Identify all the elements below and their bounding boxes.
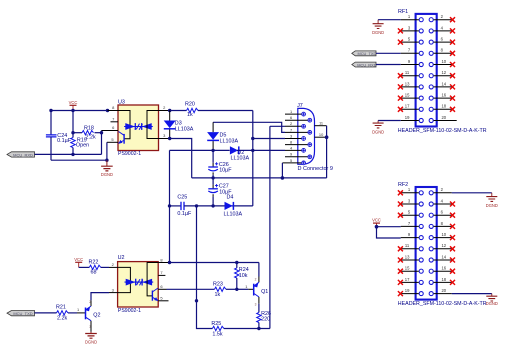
no-connect X pin 18	[450, 280, 455, 285]
wire C24 bottom to DGND	[51, 159, 107, 161]
diode D5 LL103A	[207, 122, 238, 150]
header RF1 pin 7 stub	[401, 52, 419, 54]
J7 pin 9 stub	[285, 156, 308, 158]
node junction VCC stem	[71, 109, 74, 112]
svg-text:12: 12	[441, 243, 446, 248]
no-connect X pin 17	[398, 107, 403, 112]
node junction D2 right on R20 net	[251, 149, 254, 152]
node junction C26/C27 midpoint	[211, 176, 214, 179]
node junction R18 left	[71, 131, 74, 134]
opto-coupler U2 PS9002-1 body	[118, 255, 159, 314]
svg-text:3: 3	[255, 303, 257, 307]
no-connect X pin 2	[450, 17, 455, 22]
no-connect X pin 8	[450, 224, 455, 229]
header RF1 pin 4 stub	[434, 30, 452, 32]
U2 right pin labels	[160, 257, 163, 300]
no-connect X pin 8	[450, 51, 455, 56]
svg-text:1k: 1k	[215, 292, 221, 298]
no-connect X pin 5	[398, 40, 403, 45]
wire VCC to RF2 pin 7	[377, 226, 401, 228]
svg-text:220: 220	[261, 317, 270, 323]
J7 pin 2 stub	[285, 125, 302, 127]
svg-text:7: 7	[290, 127, 292, 132]
no-connect X pin 12	[450, 73, 455, 78]
header RF2 pin 10 stub	[434, 237, 452, 239]
svg-text:10µF: 10µF	[219, 168, 232, 174]
header RF1 pin 20 stub	[434, 120, 457, 122]
no-connect X pin 4	[450, 28, 455, 33]
svg-text:11: 11	[319, 121, 323, 126]
node junction R18 right / pin6	[100, 131, 103, 134]
header RF1 pin 10 stub	[434, 64, 452, 66]
wire DGND to RF1 pin 1	[378, 19, 401, 21]
svg-text:12: 12	[441, 70, 446, 75]
header RF2 pin 2 stub	[434, 192, 452, 194]
wire MCU_TXD to R21	[35, 312, 57, 314]
diode D2 LL103A	[213, 146, 285, 161]
no-connect X pin 13	[398, 258, 403, 263]
svg-text:Q2: Q2	[93, 313, 100, 319]
J7 pin 10 stub	[315, 136, 327, 138]
no-connect X pin 17	[398, 280, 403, 285]
U3 pin number labels 8 7 6 5	[111, 105, 115, 142]
svg-text:DGND: DGND	[101, 172, 113, 177]
svg-text:9: 9	[290, 152, 292, 157]
svg-text:19: 19	[405, 115, 410, 120]
resistor R22 68	[79, 259, 109, 275]
svg-text:6: 6	[290, 115, 292, 120]
J7 pin 7 stub	[285, 131, 308, 133]
svg-text:18: 18	[441, 277, 446, 282]
svg-text:U2: U2	[118, 255, 125, 261]
header RF1 pin 16 stub	[434, 97, 452, 99]
U3 pin 5 stub	[107, 141, 118, 143]
no-connect X pin 15	[398, 96, 403, 101]
header RF1 pin circles	[419, 18, 433, 123]
header RF2 pin 13 stub	[401, 259, 419, 261]
U2 internal photo-transistor	[152, 288, 158, 301]
svg-text:1: 1	[77, 307, 79, 312]
no-connect X pin 3	[398, 202, 403, 207]
power VCC symbol (U2)	[74, 257, 83, 268]
no-connect X pin 14	[450, 258, 455, 263]
resistor R24 10k	[235, 263, 249, 290]
U2 left pin labels	[112, 262, 115, 292]
U2 pin 3 stub	[109, 292, 118, 294]
svg-text:2.2k: 2.2k	[86, 135, 96, 141]
J7 pin 10/11 labels	[319, 121, 324, 138]
header RF1 pin 18 stub	[434, 108, 452, 110]
U3 internal output-side wiring	[147, 111, 159, 139]
header RF1 pin 15 stub	[401, 97, 419, 99]
wire jog R18 right up to pin 6	[101, 131, 103, 133]
resistor R18 2.2k	[73, 125, 102, 140]
node junction U3 pin3 / D3 bottom	[168, 137, 171, 140]
header RF2 pin 6 stub	[434, 214, 452, 216]
node junction D5 bottom / C26 / D2	[211, 149, 214, 152]
node junction VCC rail left	[49, 109, 52, 112]
opto-coupler U3 PS9002-1 body	[118, 99, 159, 157]
header RF2 pin 18 stub	[434, 281, 452, 283]
U2 pin 2 stub	[109, 266, 118, 268]
svg-text:LL103A: LL103A	[220, 138, 239, 144]
ground DGND (under Q2)	[85, 332, 97, 344]
no-connect X pin 14	[450, 84, 455, 89]
svg-text:J7: J7	[297, 103, 303, 109]
J7 pin circle crosses	[302, 113, 311, 164]
resistor R19 Open (vertical)	[71, 133, 89, 155]
capacitor C25 0.1uF	[170, 195, 253, 218]
svg-text:20: 20	[441, 115, 446, 120]
no-connect X pin 11	[398, 246, 403, 251]
svg-text:10: 10	[441, 232, 446, 237]
header RF1 pin 17 stub	[401, 108, 419, 110]
svg-text:LL103A: LL103A	[175, 126, 194, 132]
wire C25 net vertical to U2 pin5	[196, 206, 198, 301]
svg-text:MCU_RXD: MCU_RXD	[13, 152, 33, 157]
ground DGND (RF1 pin1)	[372, 20, 384, 35]
svg-text:5: 5	[290, 158, 292, 163]
U2 internal collector wiring	[147, 263, 158, 296]
port tag MCU_RXD	[7, 152, 35, 158]
J7 pin 6 stub	[285, 119, 308, 121]
svg-text:2: 2	[290, 121, 292, 126]
no-connect X pin 11	[398, 73, 403, 78]
wire MCU_RXD to U3 pin 5 net	[35, 133, 102, 155]
header RF2 pin 7 stub	[401, 225, 419, 227]
svg-text:13: 13	[405, 81, 410, 86]
svg-text:3: 3	[290, 133, 292, 138]
node junction VCC feed	[375, 225, 379, 229]
no-connect X pin 3	[398, 28, 403, 33]
no-connect X pin 10	[450, 62, 455, 67]
wire Q1 collector pin	[258, 277, 260, 283]
svg-text:17: 17	[405, 277, 410, 282]
header RF1 pin 3 stub	[401, 30, 419, 32]
resistor R23 1k	[167, 282, 237, 299]
header RF1 pin 5 stub	[401, 41, 419, 43]
no-connect X pin 4	[450, 202, 455, 207]
svg-text:RF2: RF2	[398, 182, 408, 188]
svg-text:D Connector 9: D Connector 9	[298, 166, 333, 172]
J7 pin 5 stub	[282, 162, 301, 164]
transistor Q2	[77, 300, 101, 329]
port tag MCU_TXD (RF1 pin7)	[352, 51, 377, 56]
svg-text:16: 16	[441, 266, 446, 271]
svg-text:1: 1	[245, 284, 247, 289]
svg-text:68: 68	[91, 269, 97, 275]
svg-text:2.2k: 2.2k	[57, 315, 67, 321]
node junction R19 bottom on MCU_RXD wire	[71, 153, 74, 156]
header RF1 pin 2 stub	[434, 19, 452, 21]
svg-text:C25: C25	[177, 195, 187, 201]
svg-text:R20: R20	[185, 102, 195, 108]
power VCC symbol (RF2)	[372, 218, 381, 227]
J7 pin 8 stub	[285, 144, 308, 146]
U2 internal LED-side wiring	[118, 267, 131, 292]
U2 internal LED pair	[125, 279, 154, 286]
capacitor C26 10uF	[208, 150, 232, 178]
svg-text:1k: 1k	[187, 112, 193, 118]
J7 pin 1 stub	[285, 113, 302, 115]
node junction pin 10	[325, 135, 329, 139]
header RF2 pin 16 stub	[434, 270, 452, 272]
node junction R24 top	[235, 261, 238, 264]
J7 pin number labels	[290, 109, 293, 163]
header RF1 pin 13 stub	[401, 86, 419, 88]
svg-text:14: 14	[441, 81, 446, 86]
no-connect X pin 16	[450, 269, 455, 274]
transistor Q1	[237, 278, 269, 307]
J7 pin circles column 6-9	[308, 118, 312, 158]
svg-text:R21: R21	[56, 305, 66, 311]
U3 pin 3 stub	[159, 138, 170, 140]
svg-text:19: 19	[405, 288, 410, 293]
node junction U2 pin8 on isolated rail	[168, 261, 171, 264]
U2 pin 5 stub	[158, 300, 168, 302]
U2 pin 6 stub	[158, 288, 166, 290]
header RF1 pin 9 stub	[401, 64, 419, 66]
wire U2 pin8 rail to Q1 collector	[170, 263, 259, 277]
wire VCC down to RF2 pin 9	[377, 227, 401, 238]
svg-text:18: 18	[441, 104, 446, 109]
header RF1 pin 1 stub	[401, 19, 419, 21]
port tag MCU_TXD	[7, 311, 35, 317]
U3 pin number labels 2 3	[163, 105, 166, 138]
wire VCC rail down to R18/R19	[72, 111, 74, 133]
svg-text:R22: R22	[89, 259, 99, 265]
J7 pin circles column 1-5	[302, 112, 306, 165]
wire U3 pin3 to C26/C27 midpoint	[170, 139, 192, 178]
svg-text:LL103A: LL103A	[231, 156, 250, 162]
resistor R21 2.2k	[56, 305, 77, 322]
node junction C27 bottom	[211, 204, 214, 207]
U3 pin 2 stub	[159, 110, 170, 112]
header RF1 pin 19 stub	[401, 120, 419, 122]
svg-text:U3: U3	[118, 99, 125, 105]
connector J7 body	[297, 103, 333, 172]
U3 pin 8 stub	[108, 110, 119, 112]
svg-text:14: 14	[441, 254, 446, 259]
svg-text:VCC: VCC	[372, 218, 381, 223]
svg-text:1.5k: 1.5k	[212, 331, 222, 337]
node junction R23/R24/Q1 base	[235, 288, 238, 291]
wire MCU_TXD to RF1 pin 7	[376, 52, 401, 54]
svg-text:VCC: VCC	[74, 257, 83, 262]
no-connect X pin 15	[398, 269, 403, 274]
svg-text:0.1µF: 0.1µF	[57, 138, 72, 144]
wire J7 pin 5 down to bottom rail	[281, 163, 283, 178]
header RF2 pin 17 stub	[401, 281, 419, 283]
svg-text:PS9002-1: PS9002-1	[118, 308, 141, 314]
capacitor C24 0.1uF	[46, 111, 72, 161]
header RF2 pin 9 stub	[401, 237, 419, 239]
svg-text:17: 17	[405, 104, 410, 109]
svg-text:LL103A: LL103A	[224, 212, 243, 218]
U3 internal photo-transistor	[118, 132, 124, 144]
diode D3 LL103A	[164, 111, 194, 139]
no-connect X pin 6	[450, 213, 455, 218]
svg-text:RF1: RF1	[398, 9, 408, 15]
header RF2 body	[398, 182, 487, 307]
node junction at U3 pin8	[106, 109, 109, 112]
node junction at DGND stem	[105, 159, 108, 162]
node junction U3 pin2 / D3 / R20	[168, 109, 171, 112]
svg-text:R23: R23	[213, 282, 223, 288]
power VCC symbol (top left)	[69, 100, 78, 111]
header RF2 pin 5 stub	[401, 214, 419, 216]
svg-text:DGND: DGND	[85, 339, 97, 344]
no-connect X pin 19	[398, 291, 403, 296]
J7 pin 11 stub	[315, 125, 327, 127]
node junction C25 right / down leg	[195, 204, 198, 207]
header RF2 pin 1 stub	[401, 192, 419, 194]
ground DGND (RF2 pin20)	[486, 294, 498, 307]
svg-text:R18: R18	[84, 125, 94, 131]
capacitor C27 10uF	[208, 178, 232, 206]
svg-text:R25: R25	[211, 321, 221, 327]
header RF2 pin 20 stub	[434, 293, 452, 295]
wire Q2 emitter down	[90, 321, 92, 332]
header RF2 pin 15 stub	[401, 270, 419, 272]
ground DGND (RF2 pin2)	[486, 193, 498, 208]
header RF1 body	[398, 9, 487, 134]
wire D5 top to J7 pin 7	[213, 122, 285, 132]
ground DGND (under U3)	[101, 160, 113, 177]
wire RF2 pin 20 to DGND	[452, 293, 492, 295]
svg-text:11: 11	[405, 70, 410, 75]
header RF1 pin 12 stub	[434, 75, 452, 77]
J7 pin 3 stub	[285, 138, 302, 140]
wire C26/C27 midpoint to J7 bottom rail	[192, 177, 327, 179]
svg-text:DGND: DGND	[486, 301, 498, 306]
svg-text:13: 13	[405, 254, 410, 259]
svg-text:MCU_RXD: MCU_RXD	[357, 62, 376, 67]
port tag MCU_RXD (RF1 pin9)	[352, 62, 377, 67]
no-connect X pin 1	[398, 190, 403, 195]
U3 pin 5 wire down to ground rail	[106, 142, 108, 160]
U2 pin 7 stub	[158, 274, 165, 276]
svg-text:1: 1	[290, 109, 292, 114]
svg-text:HEADER_SFM-110-02-SM-D-A-K-TR: HEADER_SFM-110-02-SM-D-A-K-TR	[398, 128, 487, 134]
resistor R20 1k	[170, 102, 253, 118]
svg-text:DGND: DGND	[486, 203, 498, 208]
header RF2 pin 4 stub	[434, 203, 452, 205]
U3 internal LED pair	[124, 123, 153, 130]
wire DGND to RF1 pin 19	[378, 120, 401, 122]
svg-text:20: 20	[441, 288, 446, 293]
node junction C25 left	[168, 204, 171, 207]
diode D4 LL103A	[224, 194, 243, 217]
no-connect X pin 10	[450, 235, 455, 240]
wire J7 pin 2 long vertical to bottom section	[270, 126, 285, 328]
svg-text:MCU_TXD: MCU_TXD	[357, 51, 376, 56]
node junction R20 net / J7 pin3 branch	[251, 137, 254, 140]
header RF2 pin 14 stub	[434, 259, 452, 261]
svg-text:2: 2	[255, 278, 257, 282]
resistor R26 220	[257, 304, 271, 329]
wire D5 junction left and down leg	[170, 150, 214, 262]
header RF1 pin 6 stub	[434, 41, 452, 43]
svg-text:DGND: DGND	[372, 30, 384, 35]
U2 pin 8 stub	[158, 262, 169, 264]
no-connect X pin 18	[450, 107, 455, 112]
svg-text:HEADER_SFM-110-02-SM-D-A-K-TR: HEADER_SFM-110-02-SM-D-A-K-TR	[398, 301, 487, 307]
svg-text:8: 8	[290, 140, 292, 145]
wire RF2 pin 2 to DGND	[452, 192, 492, 194]
svg-text:Open: Open	[76, 143, 89, 149]
header RF2 pin 3 stub	[401, 203, 419, 205]
node junction U2 pin5 / C25 net	[195, 299, 198, 302]
header RF2 pin 12 stub	[434, 248, 452, 250]
svg-text:15: 15	[405, 266, 410, 271]
U3 pin 6 stub	[102, 130, 119, 132]
svg-text:11: 11	[405, 243, 410, 248]
header RF2 pin 8 stub	[434, 225, 452, 227]
no-connect X pin 6	[450, 40, 455, 45]
wire branch to J7 pin 3	[253, 138, 285, 140]
svg-text:PS9002-1: PS9002-1	[118, 151, 141, 157]
svg-text:16: 16	[441, 93, 446, 98]
svg-text:10k: 10k	[239, 273, 248, 279]
ground DGND (RF1 pin19)	[372, 121, 384, 135]
node junction R26 bottom on R25 wire	[257, 327, 260, 330]
node junction pin5 on bottom rail	[281, 176, 285, 180]
header RF1 pin 8 stub	[434, 52, 452, 54]
no-connect X pin 13	[398, 84, 403, 89]
wire C25 net down to R25	[197, 301, 213, 329]
J7 pin 4 stub	[285, 149, 302, 151]
svg-text:MCU_TXD: MCU_TXD	[13, 311, 32, 316]
no-connect X pin 5	[398, 213, 403, 218]
wire Q2 collector up to U2 pin 3	[90, 300, 92, 306]
svg-text:VCC: VCC	[69, 100, 78, 105]
svg-text:D4: D4	[227, 194, 234, 200]
wire VCC rail to U3 pin 8	[51, 110, 108, 112]
no-connect X pin 16	[450, 96, 455, 101]
header RF1 pin 14 stub	[434, 86, 452, 88]
svg-text:DGND: DGND	[372, 130, 384, 135]
wire pins 10/11 down to bottom rail	[326, 126, 328, 178]
header RF2 pin 11 stub	[401, 248, 419, 250]
U3 internal collector wiring	[118, 111, 130, 139]
svg-text:15: 15	[405, 93, 410, 98]
wire R20 net vertical	[252, 111, 254, 206]
header RF2 pin circles	[419, 191, 433, 296]
svg-text:Q1: Q1	[261, 289, 268, 295]
resistor R25 1.5k	[211, 321, 270, 337]
header RF2 pin 19 stub	[401, 293, 419, 295]
no-connect X pin 12	[450, 246, 455, 251]
U3 pin 7 stub	[111, 121, 119, 123]
wire MCU_RXD to RF1 pin 9	[376, 64, 401, 66]
svg-text:10: 10	[441, 59, 446, 64]
header RF1 pin 11 stub	[401, 75, 419, 77]
svg-text:0.1µF: 0.1µF	[177, 211, 192, 217]
